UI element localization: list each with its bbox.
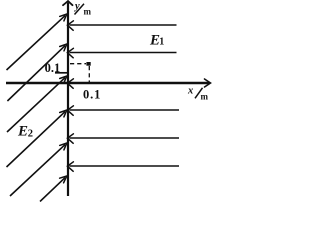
svg-text:x: x: [187, 86, 193, 97]
svg-text:0.1: 0.1: [83, 87, 101, 101]
svg-text:m: m: [84, 6, 92, 16]
svg-text:0.1: 0.1: [45, 61, 61, 75]
svg-text:m: m: [201, 91, 209, 101]
svg-text:2: 2: [28, 129, 33, 140]
svg-text:1: 1: [159, 36, 164, 47]
svg-text:E: E: [17, 123, 28, 139]
